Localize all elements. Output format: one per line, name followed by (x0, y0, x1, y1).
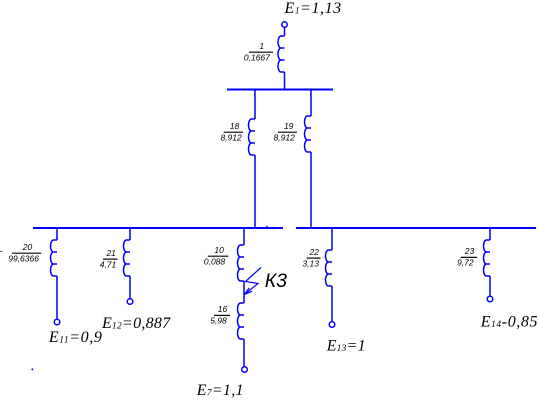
short-circuit arrow K3 (244, 268, 261, 295)
edge mark (0, 250, 3, 252)
reactance coil X18 (249, 119, 256, 155)
svg-text:23: 23 (464, 246, 475, 256)
label X20 value 20/99,6366 (8, 242, 41, 264)
svg-text:К3: К3 (265, 270, 287, 292)
junction tick on left bus (266, 226, 268, 228)
top bus node (227, 89, 333, 91)
svg-text:5,98: 5,98 (210, 316, 227, 326)
wire branch 21 upper (129, 228, 131, 240)
wire branch 20 lower (56, 276, 58, 319)
reactance coil X22 (326, 250, 333, 286)
label X21 value 21/4,71 (100, 248, 118, 270)
terminal circle E1 (282, 22, 287, 27)
svg-text:0,088: 0,088 (204, 257, 226, 267)
wire node K3 (243, 281, 245, 303)
svg-text:E13=1: E13=1 (326, 338, 366, 355)
wire branch 20 upper (56, 228, 58, 240)
svg-text:19: 19 (284, 121, 294, 131)
svg-text:4,71: 4,71 (100, 259, 117, 269)
svg-text:20: 20 (22, 242, 33, 252)
svg-text:22: 22 (308, 247, 319, 257)
terminal circle E7 (242, 367, 248, 373)
wire E1 bottom (284, 72, 286, 90)
reactance coil X10 (238, 245, 244, 281)
label X16 value 16/5,98 (210, 304, 230, 326)
label X1 value 1/0,1667 (244, 41, 273, 63)
terminal circle E14 (487, 296, 493, 302)
left bus node (33, 227, 283, 229)
wire branch 23 lower (489, 276, 491, 296)
svg-text:8,912: 8,912 (220, 133, 242, 143)
label X10 value 10/0,088 (204, 245, 229, 267)
reactance coil X23 (484, 240, 491, 276)
wire branch 21 lower (129, 276, 131, 298)
reactance coil X19 (305, 116, 312, 152)
wire branch 22 lower (331, 286, 333, 321)
wire branch 18 upper (254, 89, 256, 119)
svg-text:3,13: 3,13 (302, 258, 319, 268)
svg-text:9,72: 9,72 (457, 258, 474, 268)
svg-text:1: 1 (259, 41, 264, 51)
label X23 value 23/9,72 (457, 246, 477, 268)
svg-text:8,912: 8,912 (274, 133, 296, 143)
svg-text:E11=0,9: E11=0,9 (48, 329, 103, 346)
svg-text:E12=0,887: E12=0,887 (101, 315, 171, 332)
reactance coil X16 (238, 303, 244, 339)
wire branch 23 upper (489, 228, 491, 240)
svg-text:21: 21 (105, 248, 116, 258)
svg-text:99,6366: 99,6366 (8, 254, 39, 264)
wire branch 16 lower (243, 339, 245, 366)
terminal circle E12 (127, 299, 133, 305)
label X18 value 18/8,912 (220, 121, 243, 143)
terminal circle E13 (329, 322, 335, 328)
wire branch 18 lower (254, 155, 256, 229)
right bus node (296, 227, 536, 229)
label X22 value 22/3,13 (302, 247, 320, 269)
svg-text:10: 10 (214, 245, 224, 255)
wire branch 19 lower (310, 152, 312, 229)
wire branch 22 upper (331, 228, 333, 250)
svg-text:18: 18 (230, 121, 240, 131)
label X19 value 19/8,912 (274, 121, 297, 143)
svg-text:E14-0,85: E14-0,85 (480, 314, 538, 331)
reactance coil X21 (124, 240, 131, 276)
svg-text:0,1667: 0,1667 (244, 53, 270, 63)
terminal circle E11 (54, 319, 60, 325)
reactance coil X20 (51, 240, 58, 276)
wire E1 top (284, 27, 286, 36)
stray dot (31, 368, 33, 370)
wire branch 19 upper (310, 89, 312, 116)
svg-text:E1=1,13: E1=1,13 (284, 0, 342, 17)
svg-text:E7=1,1: E7=1,1 (196, 382, 244, 399)
svg-text:16: 16 (218, 304, 228, 314)
reactance coil X1 (278, 36, 285, 72)
wire branch 10 upper (243, 228, 245, 245)
